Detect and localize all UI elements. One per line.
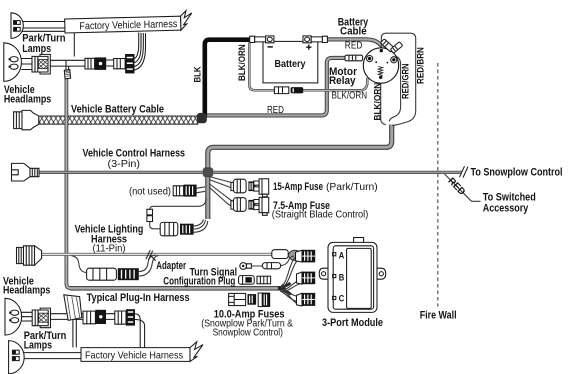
svg-text:A: A	[339, 250, 345, 261]
svg-text:RED: RED	[345, 40, 363, 51]
svg-text:Fire Wall: Fire Wall	[420, 310, 457, 322]
svg-text:BLK/ORN: BLK/ORN	[372, 83, 383, 121]
svg-text:Headlamps: Headlamps	[3, 285, 50, 297]
svg-text:Accessory: Accessory	[483, 202, 529, 214]
svg-text:(Park/Turn): (Park/Turn)	[326, 182, 378, 193]
svg-text:BLK/ORN: BLK/ORN	[332, 91, 368, 102]
svg-text:B: B	[339, 273, 345, 284]
svg-text:Lamps: Lamps	[24, 340, 52, 352]
svg-text:BLK: BLK	[193, 66, 204, 82]
svg-text:Battery: Battery	[275, 59, 306, 70]
svg-text:(Straight Blade Control): (Straight Blade Control)	[272, 210, 369, 221]
svg-text:Vehicle Control Harness: Vehicle Control Harness	[83, 147, 186, 159]
svg-text:Headlamps: Headlamps	[4, 93, 51, 105]
svg-text:3-Port Module: 3-Port Module	[322, 317, 383, 329]
svg-text:Lamps: Lamps	[22, 43, 51, 55]
svg-text:(not used): (not used)	[129, 186, 171, 197]
svg-text:Factory Vehicle Harness: Factory Vehicle Harness	[85, 350, 183, 361]
svg-text:15-Amp Fuse: 15-Amp Fuse	[273, 181, 323, 193]
svg-text:Relay: Relay	[329, 75, 356, 87]
svg-text:Configuration Plug: Configuration Plug	[163, 276, 235, 288]
svg-text:RED/BRN: RED/BRN	[416, 47, 427, 84]
svg-text:Typical Plug-In Harness: Typical Plug-In Harness	[87, 292, 190, 304]
svg-text:BLK/ORN: BLK/ORN	[237, 44, 248, 81]
svg-text:To Snowplow Control: To Snowplow Control	[471, 167, 563, 179]
svg-text:RED: RED	[267, 105, 284, 116]
svg-text:Adapter: Adapter	[156, 260, 186, 272]
svg-text:RED/GRN: RED/GRN	[400, 63, 411, 99]
svg-text:Cable: Cable	[340, 26, 367, 38]
svg-text:(11-Pin): (11-Pin)	[93, 243, 126, 254]
svg-text:Vehicle Battery Cable: Vehicle Battery Cable	[71, 103, 164, 115]
svg-text:Snowplow Control): Snowplow Control)	[213, 327, 283, 338]
svg-text:C: C	[339, 293, 345, 304]
svg-text:(3-Pin): (3-Pin)	[108, 159, 141, 170]
